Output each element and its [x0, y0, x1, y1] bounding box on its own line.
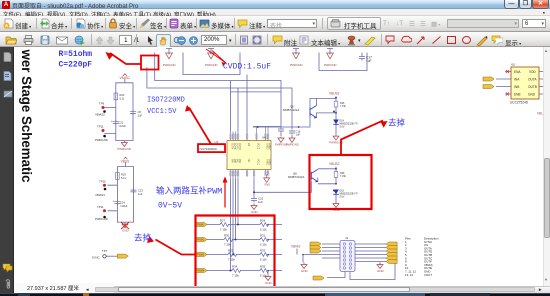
svg-text:U5: U5 — [511, 62, 515, 66]
svg-text:INC: INC — [235, 159, 237, 163]
svg-text:5.11k: 5.11k — [260, 273, 267, 277]
svg-text:ISO7220MD: ISO7220MD — [147, 96, 185, 104]
svg-text:5.11k: 5.11k — [260, 227, 267, 231]
svg-text:GND: GND — [122, 228, 130, 232]
svg-text:INB: INB — [514, 85, 519, 89]
svg-text:PWRGND: PWRGND — [286, 142, 299, 146]
svg-text:EN: EN — [247, 143, 249, 147]
svg-text:R35: R35 — [260, 264, 266, 268]
svg-text:R=51ohm: R=51ohm — [59, 50, 93, 59]
svg-text:GND: GND — [528, 92, 536, 96]
svg-text:VCC1:5V: VCC1:5V — [147, 108, 177, 116]
svg-text:VDD: VDD — [529, 70, 536, 74]
svg-text:GND: GND — [251, 210, 259, 214]
svg-text:PWRGND: PWRGND — [95, 138, 108, 142]
svg-text:7.15k: 7.15k — [224, 242, 231, 246]
svg-text:GND: GND — [264, 182, 270, 186]
svg-text:OUTB: OUTB — [233, 143, 235, 150]
svg-text:0V~5V: 0V~5V — [158, 201, 182, 210]
svg-text:UCC27524D: UCC27524D — [510, 100, 529, 104]
svg-text:=10uF: =10uF — [120, 203, 128, 207]
svg-text:wer Stage Schematic: wer Stage Schematic — [19, 48, 35, 182]
svg-text:PWRGND: PWRGND — [163, 63, 176, 67]
svg-text:VBIAS2: VBIAS2 — [95, 112, 105, 116]
svg-text:7.15k: 7.15k — [340, 104, 347, 107]
svg-text:PWRGND: PWRGND — [205, 63, 218, 67]
svg-text:1uF: 1uF — [296, 132, 301, 136]
svg-text:PWRGND: PWRGND — [117, 147, 131, 151]
svg-text:GND1: GND1 — [265, 159, 267, 166]
svg-text:CVDD:1.5uF: CVDD:1.5uF — [223, 62, 271, 71]
svg-text:VBUS2: VBUS2 — [329, 91, 340, 95]
svg-text:=10uF: =10uF — [119, 123, 127, 127]
svg-text:R31: R31 — [260, 233, 266, 237]
svg-text:VBUS: VBUS — [121, 159, 130, 163]
svg-text:GND2: GND2 — [268, 143, 270, 150]
svg-text:IND: IND — [238, 159, 240, 163]
svg-text:C=220pF: C=220pF — [59, 60, 93, 69]
svg-text:+: + — [111, 119, 113, 123]
svg-text:7.15k: 7.15k — [232, 273, 239, 277]
svg-text:R33: R33 — [260, 248, 266, 252]
svg-text:INA: INA — [514, 77, 520, 81]
svg-text:GND: GND — [265, 281, 273, 285]
svg-text:+: + — [113, 199, 115, 203]
svg-text:7.15k: 7.15k — [220, 227, 227, 231]
svg-text:ISO7240MDW: ISO7240MDW — [200, 147, 218, 151]
svg-text:PWRGND: PWRGND — [324, 63, 337, 67]
svg-text:7.15k: 7.15k — [228, 257, 235, 261]
svg-text:5.6V: 5.6V — [340, 195, 345, 198]
svg-text:MMBT2222A: MMBT2222A — [283, 108, 299, 112]
svg-text:TP7: TP7 — [102, 249, 108, 253]
svg-text:PWM3: PWM3 — [197, 253, 205, 256]
svg-text:VBUS2: VBUS2 — [120, 76, 131, 80]
svg-text:PWM1: PWM1 — [197, 223, 205, 226]
svg-text:U4: U4 — [262, 135, 266, 139]
svg-text:OUTA: OUTA — [528, 77, 537, 81]
svg-text:TP10: TP10 — [99, 179, 106, 183]
svg-text:R30: R30 — [224, 233, 230, 237]
svg-text:PWRGND: PWRGND — [290, 63, 303, 67]
svg-text:OUTB: OUTB — [528, 85, 537, 89]
svg-text:MMBT2222A: MMBT2222A — [288, 175, 304, 179]
svg-text:TP11: TP11 — [97, 124, 104, 128]
svg-text:SYNC: SYNC — [92, 255, 100, 259]
svg-text:5.11k: 5.11k — [260, 257, 267, 261]
svg-text:TP11: TP11 — [97, 205, 104, 209]
svg-text:OUTD: OUTD — [238, 143, 240, 150]
svg-text:去掉: 去掉 — [388, 117, 406, 127]
svg-text:5.11: 5.11 — [120, 96, 125, 100]
svg-text:7.15k: 7.15k — [340, 175, 347, 178]
svg-text:VCC2: VCC2 — [256, 143, 258, 150]
svg-text:GND2: GND2 — [265, 143, 267, 150]
svg-text:VCC1: VCC1 — [256, 159, 258, 166]
svg-text:VBIAS: VBIAS — [291, 244, 300, 248]
svg-text:PWM4: PWM4 — [197, 269, 205, 272]
svg-text:R32: R32 — [228, 248, 234, 252]
svg-text:5.11k: 5.11k — [260, 242, 267, 246]
svg-text:1uF: 1uF — [138, 113, 143, 117]
svg-text:去掉: 去掉 — [134, 232, 152, 242]
svg-text:5.6V: 5.6V — [340, 125, 345, 128]
svg-text:ENB: ENB — [514, 92, 521, 96]
svg-text:VOUT: VOUT — [424, 272, 432, 276]
svg-text:1uF: 1uF — [366, 59, 372, 63]
svg-text:R27: R27 — [220, 218, 226, 222]
svg-text:13, 14: 13, 14 — [405, 272, 413, 276]
svg-text:U4: U4 — [215, 140, 219, 144]
svg-text:VBIAS3: VBIAS3 — [95, 193, 105, 197]
svg-text:5.11: 5.11 — [121, 175, 126, 179]
svg-text:ENA: ENA — [514, 70, 521, 74]
svg-text:PWM2: PWM2 — [197, 238, 205, 241]
svg-text:J1: J1 — [345, 236, 349, 240]
svg-text:R28: R28 — [260, 218, 266, 222]
svg-text:输入两路互补PWM: 输入两路互补PWM — [156, 185, 222, 196]
svg-text:INB: INB — [233, 159, 235, 163]
svg-text:NC: NC — [247, 159, 249, 163]
svg-text:GND: GND — [377, 269, 385, 273]
svg-text:1uF: 1uF — [258, 200, 263, 204]
svg-text:GND1: GND1 — [268, 159, 270, 166]
svg-text:1uF: 1uF — [138, 191, 143, 195]
svg-text:R34: R34 — [232, 264, 238, 268]
svg-text:VBUS2: VBUS2 — [329, 162, 340, 166]
svg-text:PWRGND: PWRGND — [95, 217, 108, 221]
svg-text:TP9: TP9 — [99, 101, 105, 105]
svg-text:OUTC: OUTC — [235, 143, 237, 150]
svg-text:GND: GND — [301, 269, 309, 273]
